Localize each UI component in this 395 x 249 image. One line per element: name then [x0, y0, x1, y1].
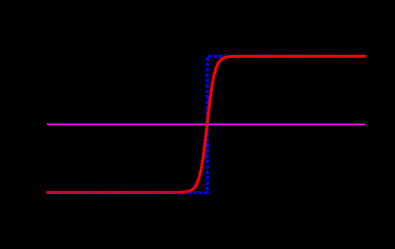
- red dotted sigmoid curve: [48, 56, 366, 192]
- magenta horizontal midline y=1/2: [47, 123, 365, 125]
- blue speckle showing through red dots on lower step segment: [49, 191, 203, 193]
- blue dashed step function (Heaviside): [48, 56, 365, 192]
